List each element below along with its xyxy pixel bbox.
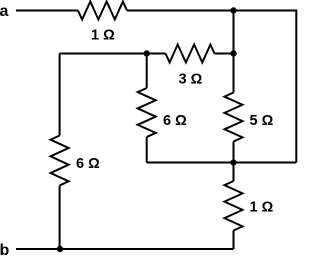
- wire middle node down to 1-ohm: [233, 163, 235, 182]
- svg-text:1 Ω: 1 Ω: [250, 200, 274, 216]
- junction node 3-ohm left: [144, 50, 150, 56]
- resistor 6 ohm left: [51, 136, 69, 186]
- wire 3-ohm node down to 5-ohm: [233, 54, 235, 93]
- junction node bottom: [57, 246, 63, 252]
- wire top node down to 3-ohm node: [233, 11, 235, 54]
- junction node 3-ohm right: [230, 50, 236, 56]
- wire left branch lower: [59, 186, 61, 250]
- svg-text:3 Ω: 3 Ω: [179, 72, 203, 88]
- svg-text:a: a: [0, 3, 9, 20]
- svg-text:6 Ω: 6 Ω: [163, 113, 187, 129]
- resistor 1 ohm top: [78, 2, 127, 20]
- junction node top: [230, 7, 236, 13]
- wire 3-ohm row left segment: [60, 53, 166, 55]
- resistor 1 ohm bottom: [225, 181, 243, 231]
- wire R-top to top-right corner and down right edge: [127, 11, 296, 163]
- wire b bottom: [16, 248, 234, 250]
- svg-text:1 Ω: 1 Ω: [91, 28, 115, 44]
- junction node middle: [230, 159, 236, 165]
- svg-text:b: b: [0, 242, 10, 256]
- wire 1-ohm bottom lead: [233, 231, 235, 250]
- resistor 3 ohm: [166, 45, 215, 63]
- wire a to R-top: [16, 10, 78, 12]
- wire 5-ohm to middle node: [233, 142, 235, 163]
- wire middle branch upper: [146, 54, 148, 89]
- resistor 6 ohm middle: [138, 88, 156, 137]
- resistor 5 ohm: [225, 93, 243, 142]
- wire middle horizontal (right box bottom): [147, 162, 297, 164]
- wire left branch upper: [59, 54, 61, 136]
- wire 3-ohm to node: [215, 53, 234, 55]
- wire middle branch lower: [146, 137, 148, 163]
- svg-text:5 Ω: 5 Ω: [250, 113, 274, 129]
- svg-text:6 Ω: 6 Ω: [76, 156, 100, 172]
